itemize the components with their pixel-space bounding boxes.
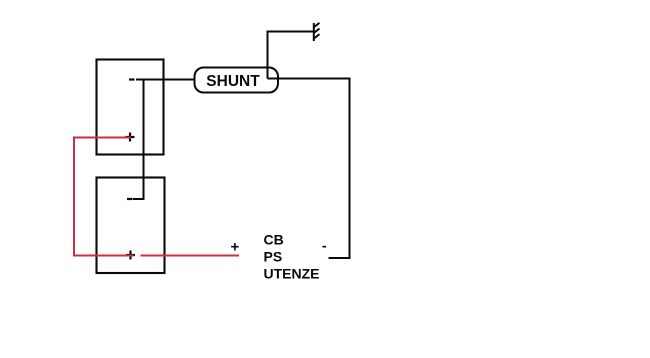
wire red B2-plus to load — [141, 255, 240, 257]
ground — [314, 23, 320, 41]
terminal - B2 — [127, 198, 133, 200]
svg-text:+: + — [231, 239, 240, 256]
svg-text:UTENZE: UTENZE — [264, 266, 320, 282]
svg-text:-: - — [322, 238, 327, 254]
wire series link B1-minus to B2-minus — [133, 80, 144, 200]
shunt U1 — [195, 68, 279, 93]
terminal + B1 — [126, 133, 135, 142]
wire ground feed down to shunt — [268, 32, 314, 79]
wire shunt output to load minus — [268, 79, 350, 259]
wire B1-minus to shunt — [136, 79, 195, 81]
battery B1 — [97, 60, 164, 155]
svg-text:CB: CB — [264, 232, 284, 248]
svg-text:PS: PS — [264, 249, 283, 265]
terminal - B1 — [129, 78, 135, 80]
svg-text:SHUNT: SHUNT — [206, 73, 260, 90]
terminal + B2 — [126, 251, 135, 260]
wire red B1-plus loop — [74, 138, 134, 256]
battery B2 — [97, 178, 165, 274]
